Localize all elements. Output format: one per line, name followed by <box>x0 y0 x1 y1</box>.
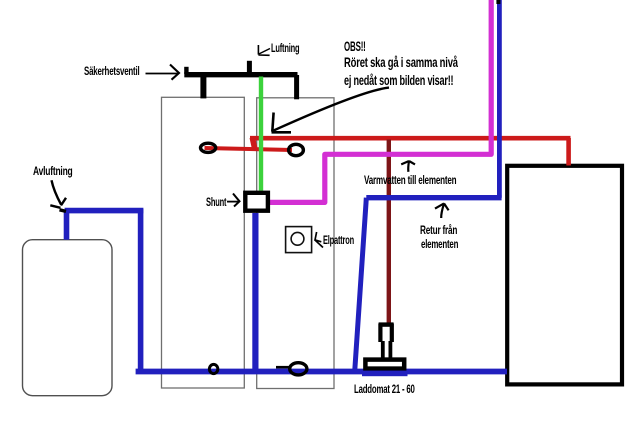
label: Retur fran line 2 <box>421 238 458 250</box>
wire: blue return horizontal <box>366 195 501 200</box>
arrow: Sakerhetsventil pointer <box>146 65 180 80</box>
wire: left up tick <box>184 67 188 74</box>
tank T2 (right accumulator tank outline) <box>257 98 334 389</box>
wire: top black bar <box>184 72 297 77</box>
Laddomat pump: base <box>365 360 404 369</box>
wire: blue bottom main pipe <box>136 369 507 375</box>
label: Sakerhetsventil <box>84 65 140 77</box>
valve V1 (left ellipse on red pipe) <box>201 143 216 152</box>
wire: left stub down into tank T1 <box>200 75 206 98</box>
wire: red tick joining upper and lower red pipes <box>252 138 255 150</box>
wire: blue pipe from shunt down <box>252 213 258 369</box>
wire: magenta pipe shunt to radiators <box>270 0 491 202</box>
Elpattron circle <box>291 232 304 245</box>
wire: luftning stub up <box>247 61 252 73</box>
label: OBS line 1 <box>344 40 366 52</box>
wire: red supply pipe horizontal <box>250 136 571 141</box>
wire: red lower pipe between valves <box>205 148 293 150</box>
wire: blue return pipe from top right <box>497 0 502 198</box>
label: OBS line 2 <box>344 56 458 68</box>
wire: blue slanted return pipe down to bottom <box>355 198 367 370</box>
black tick at top of blue pipe <box>496 0 500 4</box>
Laddomat pump: left neck <box>381 341 385 358</box>
wire: blue left riser <box>138 209 144 371</box>
wire: blue drop into expansion tank <box>64 211 70 240</box>
wire: right stub down into tank T2 <box>294 75 299 99</box>
arrow: Varmvatten up arrow <box>401 161 415 172</box>
expansion tank (rounded, far left) <box>23 240 113 396</box>
valve V2 (right ellipse on red pipe) <box>289 144 304 155</box>
shunt box <box>245 193 268 211</box>
arrow: Elpattron pointer <box>315 232 323 248</box>
label: Retur fran line 1 <box>420 224 457 236</box>
Laddomat pump: right upper side <box>390 324 394 343</box>
wire: blue thick segment under Laddomat base <box>362 371 408 377</box>
label: Varmvatten till elementen <box>364 174 456 186</box>
Laddomat pump: left upper side <box>378 324 382 343</box>
label: OBS line 3 <box>344 74 453 86</box>
arrow: long OBS pointer to pipe junction <box>272 88 390 133</box>
valve V4 (larger ellipse on bottom pipe) <box>290 363 307 375</box>
arrow: Shunt pointer <box>227 194 240 207</box>
wire: maroon pipe down to Laddomat <box>387 140 391 325</box>
label: Shunt <box>206 196 226 208</box>
Laddomat pump: top cap <box>379 322 394 326</box>
radiator box (large black rectangle right) <box>507 166 622 385</box>
label: Laddomat 21 - 60 <box>354 383 415 395</box>
arrow: Luftning pointer <box>258 45 270 55</box>
Elpattron box <box>286 227 312 253</box>
arrow: Avluftning pointer <box>50 180 66 211</box>
label: Luftning <box>271 42 299 54</box>
wire: blue expansion pipe horizontal <box>65 208 144 214</box>
label: Elpattron <box>323 234 354 246</box>
wire: red riser to radiator box <box>566 138 571 166</box>
Laddomat pump: right neck <box>388 341 392 358</box>
black short line left of valve V4 <box>276 366 289 369</box>
valve V3 (small ellipse on bottom pipe) <box>209 364 217 373</box>
wire: green shunt feed pipe <box>259 77 263 191</box>
label: Avluftning <box>33 165 73 177</box>
arrow: Retur up arrow <box>435 203 449 218</box>
tank T1 (left accumulator tank outline) <box>162 97 245 388</box>
